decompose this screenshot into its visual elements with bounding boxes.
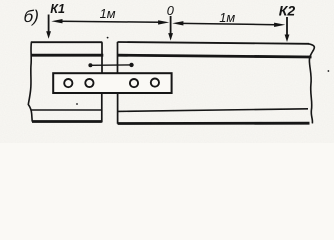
svg-text:К2: К2 bbox=[279, 2, 296, 18]
svg-text:1м: 1м bbox=[219, 10, 235, 25]
svg-text:0: 0 bbox=[167, 3, 175, 18]
svg-text:б): б) bbox=[23, 7, 40, 26]
svg-text:1м: 1м bbox=[100, 6, 116, 21]
svg-text:К1: К1 bbox=[50, 2, 65, 16]
